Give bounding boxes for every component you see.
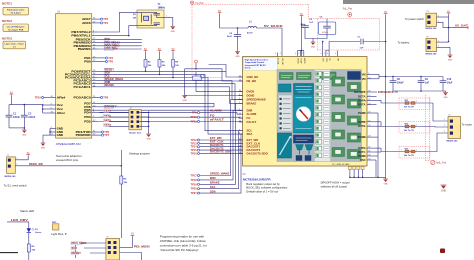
svg-text:switches all off (coast): switches all off (coast)	[321, 185, 347, 189]
net label SET2	[104, 114, 112, 117]
svg-text:PDO_MISO: PDO_MISO	[72, 242, 87, 245]
IC U1 ATMEGA328P-MU microcontroller	[50, 10, 98, 146]
svg-text:10: 10	[239, 90, 241, 92]
svg-text:42: 42	[239, 113, 241, 115]
ground C5 C6	[311, 42, 316, 48]
svg-text:4: 4	[295, 53, 296, 55]
svg-text:OUTB: OUTB	[358, 120, 366, 124]
svg-text:TP16: TP16	[190, 151, 197, 155]
svg-text:TP7: TP7	[104, 133, 109, 137]
wire PDO_MISO row	[76, 243, 108, 258]
svg-text:1: 1	[444, 119, 445, 121]
svg-text:DIR: DIR	[210, 176, 216, 180]
svg-text:DRVOFF: DRVOFF	[378, 91, 395, 94]
wire PD5 DIR row	[98, 109, 243, 111]
svg-text:DACOUT2_SDO: DACOUT2_SDO	[210, 150, 231, 154]
light pipe MV1	[51, 222, 67, 236]
svg-text:Programming header for use wit: Programming header for use with	[160, 235, 205, 239]
ground MCU	[41, 143, 46, 149]
svg-text:Layer stack - 2 layer: Layer stack - 2 layer	[5, 43, 24, 46]
net label LED_DRV bottom	[7, 218, 29, 229]
svg-text:Net Tie TH: Net Tie TH	[404, 106, 414, 109]
test point TP17	[190, 174, 199, 178]
svg-text:PC0/ADC0: PC0/ADC0	[74, 96, 92, 100]
svg-text:3: 3	[239, 109, 240, 111]
svg-text:TP14: TP14	[190, 145, 197, 149]
svg-text:GND: GND	[441, 190, 447, 193]
svg-text:FG: FG	[210, 113, 215, 117]
svg-text:18: 18	[239, 152, 241, 154]
wire DACOUT2	[200, 149, 243, 151]
svg-text:26: 26	[368, 125, 370, 127]
svg-text:GND: GND	[383, 183, 388, 185]
svg-text:47uH: 47uH	[247, 32, 253, 35]
wire BRAKE row	[98, 87, 243, 104]
svg-text:MKDS-100: MKDS-100	[5, 176, 17, 178]
svg-text:5V_BK: 5V_BK	[277, 58, 279, 65]
capacitor C1 100nF	[6, 105, 21, 128]
svg-text:100nF: 100nF	[13, 116, 20, 119]
svg-text:TP1: TP1	[103, 21, 108, 25]
svg-text:ADC6: ADC6	[82, 21, 91, 25]
svg-text:21: 21	[368, 99, 370, 101]
test point TP12	[190, 138, 199, 142]
svg-text:DVDD: DVDD	[296, 58, 298, 64]
svg-text:4: 4	[321, 53, 322, 55]
svg-text:Driver: Driver	[245, 67, 251, 70]
net label LED_DRV	[104, 47, 118, 50]
wire DVDD row	[196, 80, 243, 91]
svg-text:1nF: 1nF	[360, 47, 365, 49]
svg-text:16MHz: 16MHz	[158, 6, 166, 9]
ground C4	[235, 52, 240, 58]
svg-text:TP2: TP2	[103, 17, 108, 21]
svg-text:REED_SW: REED_SW	[29, 163, 43, 166]
net label DIR	[104, 81, 110, 84]
svg-text:13: 13	[239, 142, 241, 144]
test point TP2	[98, 17, 109, 21]
resistor R6 10k	[27, 244, 36, 260]
svg-text:GND: GND	[146, 138, 151, 140]
wire SCK row	[84, 247, 108, 249]
svg-text:1: 1	[239, 102, 240, 104]
svg-text:TP10: TP10	[190, 115, 197, 119]
svg-text:ATMEGA328P-MU: ATMEGA328P-MU	[56, 142, 81, 146]
net label SDA	[104, 71, 110, 74]
wire vcap stubs	[297, 50, 303, 57]
svg-text:Fabrication notes: Fabrication notes	[7, 9, 25, 12]
net label 6V_BAT	[448, 25, 469, 30]
svg-text:OUTC: OUTC	[358, 146, 366, 150]
svg-text:2: 2	[438, 46, 439, 48]
svg-text:SCL: SCL	[210, 185, 216, 189]
wire phase C to J4	[433, 131, 448, 151]
wire MCU supply rail	[9, 104, 50, 113]
svg-text:32: 32	[368, 147, 370, 149]
svg-text:PAD: PAD	[360, 158, 366, 162]
svg-text:4: 4	[302, 53, 303, 55]
wire PGND bus	[373, 113, 379, 178]
net tie NT1	[399, 98, 433, 110]
svg-text:Green: Green	[35, 232, 42, 234]
svg-text:MKDS-100: MKDS-100	[447, 140, 459, 142]
net label PDI_MOSI	[104, 41, 120, 44]
svg-text:OUTA: OUTA	[358, 103, 366, 107]
net label SCK bottom	[71, 247, 77, 250]
wire PD2 FAULT row	[98, 121, 243, 123]
test point TP9	[192, 111, 200, 115]
wire MCU ground pins	[43, 129, 51, 144]
svg-text:Integrated FET BLDC: Integrated FET BLDC	[245, 64, 266, 67]
wire SW_BK	[257, 28, 283, 57]
svg-text:PD2: PD2	[84, 120, 91, 124]
test point TP10 FG	[190, 115, 199, 119]
svg-text:9: 9	[239, 94, 240, 96]
svg-text:NOTE3: NOTE3	[2, 37, 12, 41]
wire reed 5V	[15, 156, 28, 161]
connector J3 programming header 2x3	[106, 237, 120, 260]
svg-text:17: 17	[239, 149, 241, 151]
svg-text:RESET: RESET	[72, 252, 82, 255]
wire thermal pad stubs to ground	[348, 167, 385, 180]
svg-text:27: 27	[368, 120, 370, 122]
svg-text:5: 5	[239, 129, 240, 131]
wire FB_BK path	[185, 68, 243, 81]
svg-text:2: 2	[444, 125, 445, 127]
svg-text:TP17: TP17	[190, 174, 197, 178]
net label RESET	[104, 68, 115, 71]
test point TP4	[98, 56, 114, 60]
svg-text:TP5: TP5	[108, 60, 113, 64]
svg-text:High Speed Sensorless: High Speed Sensorless	[245, 58, 269, 61]
power flag 5V programming	[131, 234, 135, 237]
crystal Y1 with load capacitors	[137, 10, 164, 28]
svg-text:1: 1	[438, 40, 439, 42]
svg-text:ATATMEL-ICE (Atmel-ICE); Follo: ATATMEL-ICE (Atmel-ICE); Follow	[160, 239, 207, 243]
connector P2 battery MKDS-100	[426, 36, 438, 55]
IC U3 MCT8316A motor driver body	[243, 57, 367, 167]
dashed annotation motor loop	[425, 95, 430, 161]
crystal label Y1	[158, 3, 166, 9]
svg-text:Light Pipe, 6": Light Pipe, 6"	[51, 232, 67, 236]
power flag 5V buck output	[218, 11, 222, 14]
wire DACOUT1	[200, 146, 243, 148]
svg-text:22: 22	[368, 95, 370, 97]
svg-text:PGND: PGND	[358, 135, 366, 139]
text programming note	[160, 235, 207, 253]
svg-text:Net Tie TH: Net Tie TH	[404, 129, 414, 132]
svg-text:Settings jumpers: Settings jumpers	[129, 152, 150, 156]
wire cap gnd rail	[393, 90, 446, 92]
test point TP10 on ARef	[35, 96, 44, 100]
wire OUTB to net tie	[373, 122, 402, 127]
wire power switch pin2	[437, 21, 449, 28]
svg-text:470nF: 470nF	[322, 32, 329, 34]
svg-text:OUTC: OUTC	[358, 150, 366, 154]
capacitor C6 470nF	[313, 17, 336, 39]
svg-text:Fd_Pwr: Fd_Pwr	[196, 2, 204, 5]
svg-text:100nF: 100nF	[397, 82, 404, 85]
note box 3	[3, 41, 26, 49]
wire XTAL1	[98, 26, 152, 37]
svg-text:SW_BK: SW_BK	[281, 58, 283, 66]
net label PDO_MISO bottom	[71, 242, 87, 245]
wire jumper feeds	[100, 112, 131, 126]
svg-text:15: 15	[239, 76, 241, 78]
test point TP8	[98, 96, 109, 100]
svg-text:5V_BUCK: 5V_BUCK	[264, 24, 283, 28]
svg-text:33: 33	[368, 155, 370, 157]
wire phase A to J4	[433, 103, 448, 121]
power flag 5V reed	[26, 153, 30, 156]
wire jumper commons	[139, 112, 149, 135]
svg-text:Net Tie TH: Net Tie TH	[404, 154, 414, 157]
wire charge pump stubs	[322, 41, 338, 57]
ground VM caps	[443, 93, 448, 99]
power flag 5V for MCU rail	[10, 92, 14, 95]
svg-text:To power switch: To power switch	[405, 17, 425, 21]
svg-text:GND: GND	[22, 134, 27, 136]
svg-text:BUCK_SEL software configuratio: BUCK_SEL software configuration.	[246, 186, 288, 190]
svg-text:for 2-layer PCB: for 2-layer PCB	[8, 28, 24, 31]
dashed annotation buck loop	[192, 5, 380, 78]
svg-text:Header 2x4: Header 2x4	[129, 132, 141, 135]
test point TP1	[98, 21, 109, 25]
svg-text:4: 4	[275, 53, 276, 55]
ground PGND	[383, 179, 388, 185]
svg-text:TP19: TP19	[190, 182, 197, 186]
text drvoff note	[321, 181, 350, 189]
svg-text:NdL_Fob: NdL_Fob	[436, 162, 447, 165]
test point TP6	[98, 130, 110, 134]
resistor R2 10k pull-up	[144, 52, 152, 72]
component F1 filter	[193, 72, 205, 80]
svg-text:MCT8316A1VRGFR: MCT8316A1VRGFR	[243, 177, 271, 181]
svg-text:41: 41	[239, 117, 241, 119]
svg-text:TP13: TP13	[190, 141, 197, 145]
page border corner mark	[0, 252, 18, 254]
net label DRVOFF near MCU	[104, 105, 117, 109]
svg-text:1M: 1M	[133, 17, 136, 19]
svg-text:DRVOFF: DRVOFF	[354, 90, 366, 94]
inductor L1 47uH	[247, 22, 257, 35]
svg-text:FB_BK: FB_BK	[247, 79, 257, 83]
wire PD6 row	[98, 106, 215, 108]
net label SET1	[104, 110, 112, 113]
svg-text:40: 40	[239, 121, 241, 123]
wire 5V to rail	[10, 95, 12, 104]
svg-text:1: 1	[438, 15, 439, 17]
IC U3 left pins	[239, 75, 269, 155]
connector J2 settings jumper header 2x4	[129, 108, 141, 135]
test point TP20	[190, 187, 199, 191]
svg-text:23: 23	[368, 112, 370, 114]
wire OCT stubs	[373, 96, 377, 104]
svg-text:To S1, reed switch: To S1, reed switch	[4, 183, 27, 187]
net label DRVOFF right	[373, 91, 398, 94]
svg-text:TP11: TP11	[191, 120, 198, 124]
svg-text:SDA: SDA	[247, 132, 253, 136]
power flag 6V VM	[384, 12, 388, 15]
svg-text:ALARM: ALARM	[210, 109, 223, 113]
svg-text:AVcc: AVcc	[57, 111, 66, 115]
wire SCL row	[98, 78, 243, 135]
IC U3 top pins	[275, 53, 338, 66]
test point TP11	[191, 120, 200, 124]
svg-text:14: 14	[239, 80, 241, 82]
wire TP10 to ARef	[44, 97, 50, 99]
capacitor C7 1nF	[329, 36, 386, 49]
svg-text:GND: GND	[171, 31, 176, 33]
svg-text:DC_GND-06 PAD: DC_GND-06 PAD	[332, 163, 350, 166]
svg-text:FAULT: FAULT	[247, 120, 257, 124]
svg-text:EXT_CLK: EXT_CLK	[210, 140, 224, 144]
text test points note	[56, 154, 82, 162]
ground crystal	[170, 27, 175, 33]
svg-text:BRAKE: BRAKE	[247, 101, 257, 105]
test point TP18	[190, 178, 199, 182]
svg-text:4: 4	[327, 53, 328, 55]
svg-text:BRAKE: BRAKE	[210, 181, 220, 185]
wire DIR tp	[200, 110, 243, 179]
svg-text:100nF: 100nF	[28, 116, 35, 119]
svg-text:MKDS-100: MKDS-100	[426, 28, 438, 30]
svg-text:4: 4	[298, 53, 299, 55]
net label SCL	[104, 75, 111, 78]
svg-text:GND: GND	[311, 46, 316, 48]
svg-text:TP9: TP9	[192, 111, 197, 115]
capacitor C8 100nF	[390, 77, 405, 92]
svg-text:Trapezoidal Control: Trapezoidal Control	[245, 61, 265, 64]
wire DVDD supply	[301, 17, 303, 57]
svg-text:OUTB: OUTB	[358, 124, 366, 128]
svg-text:NOTE1: NOTE1	[2, 2, 12, 6]
net flag small circle	[195, 60, 198, 69]
wire EXT_WD	[200, 139, 243, 141]
svg-text:20: 20	[368, 103, 370, 105]
net tie NT3	[399, 147, 433, 159]
svg-text:1uF: 1uF	[309, 22, 314, 24]
svg-text:GND: GND	[57, 133, 63, 137]
wire reed vertical	[121, 150, 123, 176]
wire OUTA to net tie	[373, 100, 402, 103]
svg-text:SCK: SCK	[72, 247, 78, 250]
svg-text:TP10: TP10	[35, 96, 42, 100]
net label SPEED_WAKE	[104, 78, 124, 81]
svg-text:SDA: SDA	[210, 189, 216, 193]
capacitor C9 1uF	[418, 77, 430, 92]
test point TP7	[98, 133, 110, 137]
resistor R3 10k pull-up	[158, 52, 166, 75]
svg-text:PB0: PB0	[84, 60, 91, 64]
svg-text:TP4: TP4	[108, 56, 113, 60]
wire DIR row	[98, 84, 236, 111]
svg-text:for 2-layer: for 2-layer	[11, 12, 21, 15]
svg-text:nFAULT: nFAULT	[210, 118, 224, 122]
svg-text:connections per table 3-6 pg 2: connections per table 3-6 pg 21, for	[160, 244, 207, 248]
svg-text:List of PCB layers: List of PCB layers	[7, 25, 26, 28]
wire RESET row	[98, 70, 227, 72]
ground battery	[448, 55, 453, 61]
svg-text:TP18: TP18	[190, 178, 197, 182]
wire SCL tp	[200, 131, 243, 189]
svg-text:Default value of 1 = 5V out: Default value of 1 = 5V out	[246, 190, 278, 194]
wire XTAL2	[98, 12, 142, 32]
wire header pin MOSI	[120, 237, 133, 248]
svg-text:PDI_MOSI: PDI_MOSI	[134, 245, 150, 248]
connector J1 reed switch MKDS-100	[5, 155, 17, 179]
svg-text:SPEED_WAKE: SPEED_WAKE	[210, 172, 230, 176]
svg-text:39: 39	[368, 91, 370, 93]
svg-text:DACOUT1: DACOUT1	[210, 143, 224, 147]
svg-text:To battery: To battery	[398, 41, 410, 45]
svg-text:4: 4	[280, 53, 281, 55]
svg-text:2: 2	[239, 98, 240, 100]
ground DGND	[182, 96, 187, 102]
ground motor area	[441, 185, 447, 193]
wire PD4 ALARM row	[98, 113, 243, 115]
svg-text:OCTA: OCTA	[358, 94, 366, 98]
svg-text:SET3: SET3	[104, 120, 112, 122]
net label SCK	[104, 38, 110, 41]
svg-text:3: 3	[444, 131, 445, 133]
wire EXT_CLK	[200, 142, 243, 144]
svg-text:TP21: TP21	[190, 191, 197, 195]
svg-text:1uF: 1uF	[425, 82, 430, 85]
test point TP13	[190, 141, 199, 145]
svg-text:28: 28	[368, 136, 370, 138]
note box 2	[3, 24, 29, 32]
svg-text:PC1/ADC1: PC1/ADC1	[74, 85, 92, 89]
wire battery pin2	[437, 46, 451, 55]
net label SET4	[104, 124, 112, 127]
ground below C1 C2	[22, 130, 27, 136]
capacitor C10 10uF	[440, 77, 453, 92]
svg-text:LED_DRV: LED_DRV	[11, 218, 28, 222]
capacitor C4 22uF	[227, 27, 241, 51]
wire GND_BK path	[209, 65, 243, 78]
svg-text:VM: VM	[337, 58, 339, 61]
resistor R1 1M label	[133, 14, 137, 19]
svg-text:"Atmel-ICE SPI Pin Mapping": "Atmel-ICE SPI Pin Mapping"	[160, 248, 199, 252]
net tie NT2	[399, 122, 433, 134]
svg-text:CPH: CPH	[325, 58, 327, 63]
text buck note	[246, 182, 288, 194]
top toolbar fragment	[343, 0, 474, 4]
svg-text:22uF: 22uF	[227, 36, 233, 38]
ground jumper header	[146, 134, 151, 140]
svg-text:12: 12	[239, 139, 241, 141]
test point TP15	[190, 148, 199, 152]
wire battery pin1	[437, 40, 450, 42]
svg-text:6: 6	[239, 133, 240, 135]
resistor R5 10k	[120, 176, 128, 238]
net label BRAKE	[104, 84, 114, 87]
net label PDO_MISO	[104, 44, 120, 47]
wire power switch pin1	[437, 14, 449, 41]
wire VM cap rail	[386, 76, 443, 78]
test point TP19	[190, 182, 199, 186]
svg-text:16: 16	[239, 145, 241, 147]
connector P1 power switch MKDS-100	[426, 11, 438, 30]
svg-text:GND: GND	[182, 100, 187, 102]
net flag NdL_Fob	[431, 161, 447, 165]
svg-text:GND: GND	[448, 59, 453, 61]
IC U3 right pins	[354, 72, 373, 162]
svg-text:GND: GND	[235, 56, 240, 58]
svg-text:VCAP: VCAP	[300, 58, 303, 64]
svg-text:PGND: PGND	[358, 154, 366, 158]
